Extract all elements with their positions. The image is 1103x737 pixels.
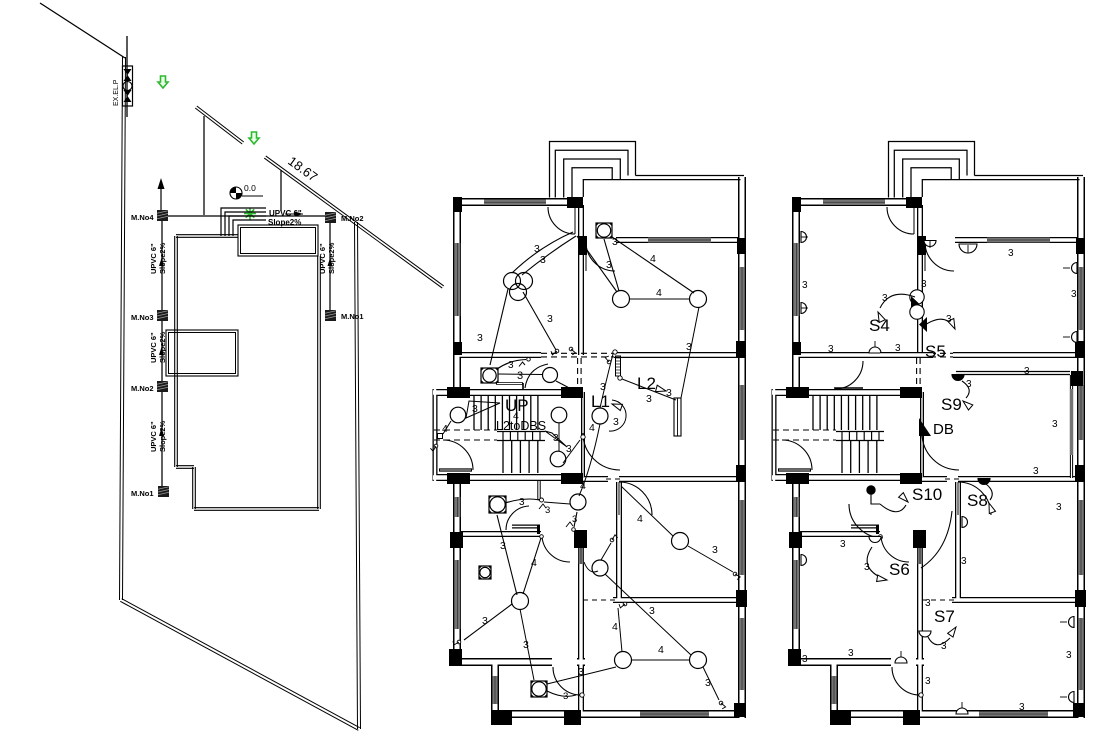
- sw near dash: [623, 602, 627, 606]
- wire porch sw: [547, 691, 576, 696]
- wire cluster to wall sw: [490, 289, 508, 365]
- windows: [484, 200, 546, 206]
- wire room5: [632, 659, 690, 661]
- manhole M.No1 right: [325, 310, 336, 321]
- stair wire down: [558, 423, 560, 451]
- light stair lower: [550, 451, 566, 467]
- building outline: [176, 236, 238, 238]
- light L1: [592, 408, 608, 424]
- svg-text:3: 3: [517, 370, 523, 382]
- svg-text:3: 3: [802, 280, 808, 291]
- svg-text:M.No1: M.No1: [131, 489, 154, 498]
- stair landing: [497, 431, 545, 433]
- svg-text:S9: S9: [941, 395, 962, 414]
- manhole M.No2 right: [325, 212, 336, 223]
- svg-text:3: 3: [828, 344, 834, 355]
- svg-text:3: 3: [547, 313, 553, 325]
- wall lights: [801, 232, 807, 243]
- svg-text:3: 3: [1056, 502, 1062, 513]
- manhole M.No4: [157, 210, 168, 221]
- door D3 stair hall: [835, 361, 863, 389]
- svg-text:4: 4: [612, 621, 618, 633]
- svg-text:DB: DB: [933, 421, 954, 438]
- light room3: [672, 533, 689, 550]
- wire top junction to light: [577, 236, 617, 292]
- svg-text:3: 3: [613, 416, 619, 428]
- svg-text:3: 3: [1008, 248, 1014, 259]
- wire room4 to door: [523, 538, 541, 594]
- door arc D6 bottom-left room: [881, 537, 909, 562]
- site plan group: [40, 3, 444, 730]
- first floor switch overlay: [801, 232, 1083, 715]
- pipe left run: [161, 219, 163, 486]
- wire fan F1 to light: [604, 239, 619, 291]
- wire door to room3 light: [621, 486, 673, 536]
- svg-text:3: 3: [882, 293, 888, 304]
- hall stub wall: [496, 382, 523, 385]
- fan box F3: [489, 496, 506, 513]
- S4 switch group: [910, 290, 924, 304]
- survey line short: [195, 108, 242, 144]
- walls black pass: [792, 198, 800, 392]
- svg-text:3: 3: [925, 598, 931, 609]
- fan box F2: [481, 368, 498, 383]
- wire L1 down: [579, 424, 600, 496]
- benchmark 0.0: [230, 187, 242, 199]
- S7 switch: [928, 637, 950, 645]
- stair treads lower: [841, 441, 843, 473]
- svg-text:3: 3: [646, 393, 652, 405]
- door arc D1 top-left room: [887, 207, 914, 234]
- svg-text:3: 3: [921, 279, 927, 290]
- svg-text:S6: S6: [889, 560, 910, 579]
- S5 switch arc: [922, 319, 953, 327]
- svg-text:3: 3: [840, 539, 846, 550]
- stair landing: [836, 431, 884, 433]
- door arc D7 entry porch: [892, 667, 919, 695]
- wire hall light down: [556, 381, 577, 392]
- svg-text:3: 3: [941, 641, 947, 652]
- columns: [792, 197, 801, 212]
- light stair right: [551, 407, 567, 423]
- svg-text:M.No2: M.No2: [131, 384, 154, 393]
- door arc D8 bottom-right room: [958, 482, 991, 515]
- svg-text:S5: S5: [925, 342, 946, 361]
- manhole M.No2 left: [157, 381, 168, 392]
- svg-text:Slope2%: Slope2%: [268, 218, 301, 227]
- svg-text:EX.EL.P: EX.EL.P: [113, 79, 120, 106]
- wire F1 to light b: [612, 237, 694, 293]
- stub wall at D6: [512, 525, 540, 529]
- svg-text:3: 3: [1066, 650, 1072, 661]
- stair node 4: [438, 434, 443, 439]
- column S9 corner: [1071, 371, 1083, 386]
- svg-text:3: 3: [848, 648, 854, 659]
- wire jamb to bar: [622, 379, 676, 400]
- green arrow 1: [158, 76, 168, 88]
- svg-text:S10: S10: [912, 485, 942, 504]
- svg-text:UPVC 6": UPVC 6": [318, 243, 327, 274]
- walls black pass: [453, 198, 461, 392]
- door arc D7 entry porch: [553, 667, 580, 695]
- svg-text:M.No4: M.No4: [131, 213, 154, 222]
- svg-text:L1: L1: [591, 392, 610, 411]
- ground floor electrical overlay: [430, 223, 740, 709]
- svg-text:S8: S8: [967, 491, 988, 510]
- svg-text:3: 3: [545, 505, 550, 516]
- svg-text:M.No3: M.No3: [131, 313, 154, 322]
- L2 arrow: [656, 385, 667, 391]
- door arc D2 upper-right: [586, 242, 615, 271]
- svg-text:3: 3: [1024, 366, 1030, 377]
- svg-text:3: 3: [925, 676, 931, 687]
- svg-text:3: 3: [482, 615, 488, 627]
- svg-text:3: 3: [477, 332, 483, 344]
- svg-text:3: 3: [1071, 289, 1077, 300]
- svg-text:3: 3: [802, 654, 808, 665]
- svg-text:3: 3: [649, 605, 655, 617]
- svg-text:4: 4: [589, 422, 595, 434]
- door arc D4 corridor: [782, 440, 812, 470]
- svg-text:3: 3: [578, 666, 584, 678]
- svg-text:S7: S7: [934, 607, 955, 626]
- svg-text:M.No2: M.No2: [341, 214, 364, 223]
- pipe top run: [167, 215, 325, 217]
- tie line vertical 1: [203, 116, 205, 215]
- svg-text:4: 4: [580, 480, 586, 492]
- wire light b down to bar: [681, 307, 699, 398]
- hall door arc lower: [506, 506, 529, 530]
- wire room4b up: [601, 543, 611, 560]
- wire room4 left: [464, 604, 512, 640]
- fan box F4: [479, 566, 491, 579]
- svg-text:3: 3: [705, 677, 711, 689]
- green star: [244, 213, 256, 215]
- columns: [453, 197, 462, 212]
- svg-text:3: 3: [472, 403, 478, 415]
- terrace top wall: [636, 175, 745, 177]
- wire room4 up: [497, 515, 517, 595]
- parapet steps: [550, 142, 636, 198]
- wire room3 long: [605, 574, 691, 655]
- door arc D5 hall: [922, 433, 959, 470]
- stair treads upper: [812, 396, 814, 430]
- light mid: [570, 494, 586, 510]
- S9 switch: [952, 375, 964, 381]
- svg-text:3: 3: [553, 433, 559, 444]
- porch rectangle: [238, 225, 318, 256]
- svg-text:3: 3: [864, 562, 870, 573]
- DB symbol: [919, 418, 931, 436]
- door arc D5 hall: [583, 433, 620, 470]
- stair treads lower: [502, 441, 504, 473]
- windows: [823, 200, 885, 206]
- fan box F1: [596, 223, 612, 238]
- survey line 18.67: [264, 158, 442, 288]
- dashed openings: [541, 352, 614, 354]
- parapet steps: [889, 142, 975, 198]
- light room4-b: [592, 560, 608, 576]
- wire cluster to sw2: [523, 292, 556, 350]
- light cluster: [504, 273, 521, 290]
- ground floor plan walls: [433, 142, 747, 726]
- boundary diagonal top-left: [40, 3, 125, 58]
- svg-text:Slope2%: Slope2%: [327, 242, 336, 274]
- svg-text:3: 3: [540, 254, 546, 266]
- svg-text:Slope2%: Slope2%: [158, 331, 167, 363]
- wire hook near wall: [584, 562, 598, 572]
- svg-text:3: 3: [1019, 702, 1025, 713]
- wire room3 to sw: [688, 546, 733, 572]
- S9 room top wall: [956, 371, 1070, 375]
- svg-text:4: 4: [442, 423, 448, 435]
- green arrow 2: [249, 132, 259, 144]
- svg-text:4: 4: [656, 287, 662, 299]
- wire mid to sw: [574, 512, 577, 527]
- wire F3 to node: [505, 499, 540, 503]
- plot boundary left edge: [120, 57, 123, 600]
- door arc D8 bottom-right room: [619, 482, 652, 515]
- door jamb bar: [616, 356, 621, 376]
- first floor plan walls: [772, 142, 1086, 726]
- stair arrow: [466, 401, 500, 418]
- manhole M.No3: [157, 310, 168, 321]
- electric pole: [126, 36, 128, 117]
- svg-text:3: 3: [1033, 466, 1039, 477]
- garage rectangle: [166, 330, 238, 376]
- svg-text:L2: L2: [637, 374, 656, 393]
- svg-text:3: 3: [966, 379, 972, 390]
- S10 double door: [849, 504, 883, 538]
- stair treads upper: [473, 396, 475, 430]
- svg-text:3: 3: [895, 343, 901, 354]
- light L-b: [690, 291, 707, 308]
- L1 hook: [609, 400, 626, 431]
- S5 wall solid segment: [880, 352, 933, 358]
- roof drain pipes nested: [221, 208, 266, 236]
- dashed openings: [880, 352, 953, 354]
- wire light a to b: [629, 298, 690, 300]
- svg-text:S4: S4: [869, 316, 890, 335]
- walls white pass: [455, 198, 460, 392]
- light L-a: [613, 291, 630, 308]
- plot boundary right edge: [355, 222, 358, 729]
- door arc D6 bottom-left room: [542, 537, 570, 562]
- light room4-a: [512, 593, 529, 610]
- svg-text:Slope2%: Slope2%: [158, 420, 167, 452]
- tie line vertical 2: [280, 170, 282, 211]
- S8 switch: [978, 479, 990, 485]
- svg-text:Slope2%: Slope2%: [158, 242, 167, 274]
- manhole M.No1 left: [158, 486, 169, 497]
- svg-text:3: 3: [606, 259, 612, 271]
- door arc D2 upper-right: [925, 242, 954, 271]
- S6 switch: [867, 547, 884, 579]
- svg-text:L2toDBS: L2toDBS: [496, 419, 546, 433]
- svg-text:M.No1: M.No1: [341, 312, 364, 321]
- svg-text:3: 3: [566, 444, 572, 455]
- light hall: [543, 368, 558, 383]
- wire F2 to hall light: [498, 373, 542, 376]
- svg-text:3: 3: [961, 556, 967, 567]
- svg-text:UPVC 6": UPVC 6": [149, 243, 158, 274]
- svg-text:4: 4: [531, 557, 537, 569]
- fan box F5: [531, 681, 547, 697]
- pipe right run: [329, 222, 331, 310]
- svg-text:3: 3: [508, 360, 514, 371]
- svg-text:3: 3: [523, 639, 529, 651]
- svg-text:3: 3: [572, 514, 577, 525]
- stub wall at D6: [851, 525, 879, 529]
- svg-text:3: 3: [1052, 419, 1058, 430]
- svg-text:3: 3: [686, 341, 692, 353]
- door arc D4 corridor: [443, 440, 473, 470]
- svg-text:0.0: 0.0: [244, 183, 256, 193]
- svg-text:3: 3: [946, 314, 952, 325]
- stair lower wires: [563, 440, 580, 463]
- svg-text:3: 3: [563, 691, 568, 702]
- north arrow: [160, 186, 162, 218]
- wire node to mid light: [544, 502, 570, 504]
- L1 arrow: [612, 404, 623, 411]
- bar radiator: [674, 398, 681, 436]
- svg-text:4: 4: [658, 644, 664, 656]
- svg-text:UPVC 6": UPVC 6": [149, 332, 158, 363]
- S10 junction: [867, 486, 875, 494]
- svg-text:UPVC 6": UPVC 6": [149, 421, 158, 452]
- wall stub below stair: [537, 480, 540, 500]
- svg-text:3: 3: [500, 540, 506, 552]
- svg-text:4: 4: [650, 253, 656, 265]
- svg-text:4: 4: [637, 513, 643, 525]
- wire F5 right: [547, 667, 616, 684]
- wire room4 down: [520, 609, 534, 680]
- light room5-a: [615, 652, 632, 669]
- walls white pass: [794, 198, 799, 392]
- hall door arc: [525, 364, 548, 388]
- wire L1 up: [600, 354, 613, 408]
- S9 room right wall: [1070, 375, 1073, 478]
- wire cluster to top: [512, 232, 573, 273]
- door arc D1 top-left room: [548, 207, 575, 234]
- light room5-b: [690, 652, 707, 669]
- svg-text:3: 3: [666, 387, 672, 399]
- light stair left: [450, 407, 466, 423]
- F2 switch curve: [497, 360, 526, 370]
- terrace top wall: [975, 175, 1084, 177]
- svg-text:3: 3: [712, 544, 718, 556]
- plot boundary bottom edge: [120, 601, 358, 730]
- L2toDBS arrows: [545, 431, 567, 447]
